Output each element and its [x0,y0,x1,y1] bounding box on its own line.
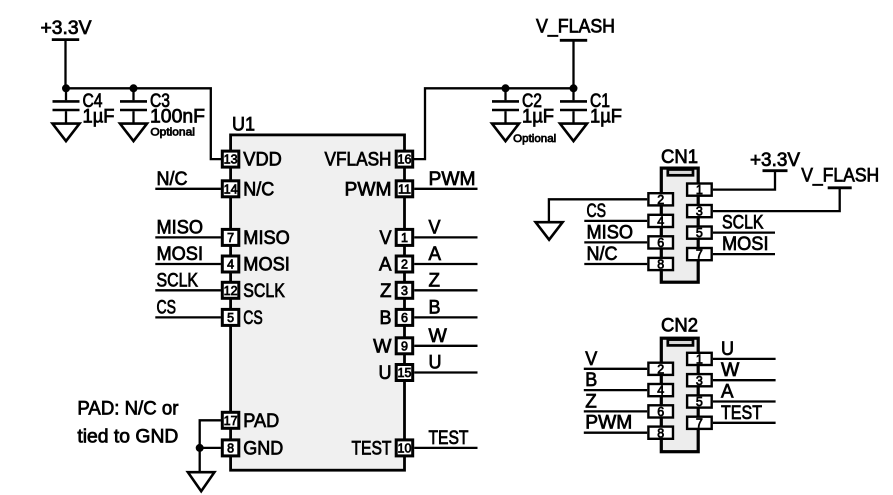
svg-text:10: 10 [398,442,412,456]
svg-text:N/C: N/C [243,179,274,200]
svg-text:5: 5 [696,395,703,409]
svg-text:2: 2 [657,193,664,207]
svg-text:U: U [721,339,734,360]
svg-text:V_FLASH: V_FLASH [801,166,879,187]
svg-text:17: 17 [224,414,238,428]
svg-text:7: 7 [227,231,234,245]
svg-text:6: 6 [657,236,664,250]
svg-text:15: 15 [398,366,412,380]
svg-text:PAD: PAD [243,411,279,432]
svg-text:CS: CS [157,297,177,318]
svg-text:1: 1 [401,231,408,245]
svg-text:TEST: TEST [429,428,469,449]
svg-text:+3.3V: +3.3V [750,150,800,171]
svg-text:V: V [585,349,597,370]
svg-text:3: 3 [401,284,408,298]
svg-text:7: 7 [696,416,703,430]
svg-text:B: B [585,370,597,391]
svg-text:Z: Z [585,391,597,412]
svg-text:100nF: 100nF [150,107,205,128]
svg-text:11: 11 [398,182,411,196]
svg-text:1: 1 [696,183,703,197]
svg-text:W: W [373,336,391,357]
svg-text:MOSI: MOSI [157,244,204,265]
svg-text:8: 8 [657,258,664,272]
svg-text:V_FLASH: V_FLASH [536,17,615,38]
svg-text:1µF: 1µF [83,107,115,128]
svg-text:MISO: MISO [587,222,634,243]
svg-text:Z: Z [429,270,441,291]
svg-text:3: 3 [696,205,703,219]
svg-text:4: 4 [657,384,664,398]
svg-text:8: 8 [657,426,664,440]
svg-text:U1: U1 [232,115,255,136]
svg-text:U: U [429,353,442,374]
svg-text:MISO: MISO [243,228,289,249]
svg-text:N/C: N/C [157,169,188,190]
svg-text:3: 3 [696,374,703,388]
svg-text:CS: CS [587,201,607,222]
svg-text:8: 8 [227,442,234,456]
svg-text:13: 13 [224,153,238,167]
svg-text:W: W [721,360,739,381]
svg-text:7: 7 [696,248,703,262]
svg-text:MOSI: MOSI [722,234,769,255]
svg-text:Optional: Optional [150,126,195,138]
svg-text:PWM: PWM [345,179,392,200]
svg-text:GND: GND [243,438,283,459]
svg-text:PWM: PWM [585,413,632,434]
svg-text:12: 12 [224,284,238,298]
svg-text:B: B [429,297,441,318]
svg-text:MISO: MISO [157,217,204,238]
svg-text:Optional: Optional [513,133,556,145]
svg-text:TEST: TEST [721,403,762,424]
svg-text:1µF: 1µF [590,107,622,128]
svg-text:SCLK: SCLK [722,213,764,234]
svg-text:4: 4 [657,215,664,229]
svg-text:V: V [429,217,441,238]
svg-text:5: 5 [696,226,703,240]
svg-text:MOSI: MOSI [243,255,289,276]
svg-text:1: 1 [696,353,703,367]
svg-text:N/C: N/C [587,244,618,265]
svg-text:tied to GND: tied to GND [77,427,178,448]
svg-text:SCLK: SCLK [157,270,199,291]
svg-text:U: U [379,363,392,384]
svg-text:CN2: CN2 [661,316,698,337]
svg-text:A: A [379,255,392,276]
svg-text:2: 2 [657,362,664,376]
svg-text:5: 5 [227,311,234,325]
svg-text:+3.3V: +3.3V [41,18,92,39]
svg-text:B: B [380,308,392,329]
svg-text:VDD: VDD [243,150,281,171]
svg-text:CS: CS [243,308,262,329]
svg-text:A: A [721,382,734,403]
svg-text:V: V [380,228,392,249]
svg-text:4: 4 [227,258,234,272]
svg-text:TEST: TEST [352,438,392,459]
svg-text:1µF: 1µF [522,107,554,128]
svg-text:PWM: PWM [429,169,476,190]
svg-text:14: 14 [224,182,238,196]
svg-text:CN1: CN1 [661,147,698,168]
svg-text:6: 6 [657,405,664,419]
svg-text:16: 16 [398,153,412,167]
svg-text:SCLK: SCLK [243,281,285,302]
svg-text:PAD: N/C or: PAD: N/C or [77,399,179,420]
svg-text:Z: Z [380,281,392,302]
svg-text:2: 2 [401,258,408,272]
svg-text:6: 6 [401,311,408,325]
svg-text:A: A [429,244,442,265]
svg-text:9: 9 [401,339,408,353]
svg-text:VFLASH: VFLASH [325,150,392,171]
svg-text:W: W [429,326,447,347]
